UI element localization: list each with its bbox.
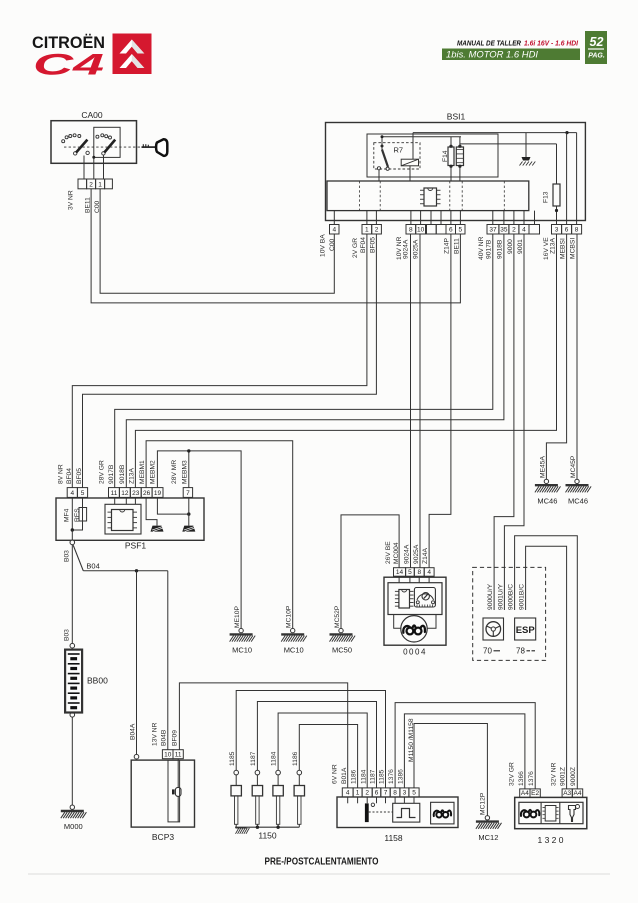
wire 1386 (1158 pin3 to 1320 A4)	[404, 714, 525, 789]
wire C00 (CA00 pin1 to BSI pin4)	[100, 189, 334, 293]
svg-text:1158: 1158	[384, 833, 403, 843]
svg-text:2: 2	[89, 182, 93, 189]
ground terminal M000	[61, 805, 87, 818]
svg-text:9001U/Y: 9001U/Y	[497, 583, 504, 610]
svg-text:9025A: 9025A	[412, 239, 419, 259]
wire BF09/B01A (BCP3 pin11 to 1158 pin4)	[179, 683, 347, 788]
svg-text:BF05: BF05	[369, 237, 376, 253]
svg-text:40V NR: 40V NR	[478, 236, 485, 260]
wire 9025A (BSI pin10 to 0004)	[419, 234, 421, 568]
svg-text:1376: 1376	[388, 769, 395, 784]
pre/post heating control unit 1158	[337, 797, 458, 843]
BSI main compartment box	[327, 181, 529, 211]
svg-text:Z13A: Z13A	[129, 467, 136, 484]
wire 9001B/C to 1320 (9001Z)	[526, 546, 567, 789]
svg-text:35: 35	[500, 227, 508, 234]
PSF1 internal MF4 fuse	[64, 497, 87, 544]
svg-text:9000U/Y: 9000U/Y	[487, 583, 494, 610]
svg-text:9001B/C: 9001B/C	[519, 584, 526, 610]
svg-text:B03: B03	[63, 629, 70, 641]
svg-text:BF05: BF05	[76, 468, 83, 484]
svg-text:1376: 1376	[528, 771, 535, 786]
wire 28V MR MEBM2/MEBM3 (PSF1 pins 19,7 to ground ME10P)	[157, 449, 241, 628]
svg-text:9001Z: 9001Z	[560, 767, 567, 786]
svg-text:3: 3	[555, 227, 559, 234]
svg-text:MEBSI: MEBSI	[559, 238, 566, 259]
svg-text:10: 10	[417, 227, 425, 234]
wire M1150/M1158 (1158 pin5 to MC12)	[414, 724, 487, 816]
faint rule	[28, 873, 610, 875]
svg-text:F13: F13	[542, 191, 549, 203]
svg-text:4: 4	[522, 227, 526, 234]
relay R7 switch	[377, 145, 389, 182]
wire BE11 (CA00 pin2 to BSI pin5)	[91, 189, 460, 303]
svg-text:9017B: 9017B	[108, 464, 115, 484]
BSI internal wire B (top rail to MEBSI/MCBSI)	[413, 131, 577, 134]
wire 1185 (glow plug to 1158)	[236, 691, 385, 788]
header page box: 52 PAG.	[585, 31, 607, 64]
svg-text:MC10: MC10	[284, 646, 304, 655]
BCP3 pin row 10|11	[162, 750, 183, 759]
node B04	[73, 545, 168, 572]
BSI pin connectors row	[330, 225, 340, 235]
ignition switch CA00	[51, 110, 137, 163]
BSI pin stubs	[334, 211, 534, 225]
svg-text:MC10: MC10	[232, 646, 252, 655]
relay R7 dashed box	[374, 143, 420, 169]
dashed actuating line to key	[64, 146, 142, 148]
relay R7 coil	[401, 133, 418, 181]
ground terminal MC10P	[281, 628, 307, 641]
svg-text:70: 70	[483, 647, 492, 656]
svg-text:6V NR: 6V NR	[331, 764, 338, 784]
svg-text:BE11: BE11	[453, 238, 460, 254]
wire 9018B	[126, 234, 504, 488]
svg-text:BSI1: BSI1	[447, 112, 466, 122]
1158 internal relay	[365, 803, 393, 822]
svg-text:MC46: MC46	[537, 496, 557, 505]
svg-text:PSF1: PSF1	[125, 541, 147, 551]
BSI microprocessor	[420, 188, 441, 206]
svg-text:13V NR: 13V NR	[151, 722, 158, 746]
svg-text:9024A: 9024A	[403, 239, 410, 259]
svg-text:5: 5	[412, 790, 416, 797]
svg-text:1: 1	[365, 227, 369, 234]
svg-text:1187: 1187	[370, 769, 377, 784]
fuse F14	[442, 137, 464, 181]
svg-text:1186: 1186	[351, 769, 358, 784]
svg-text:BB00: BB00	[87, 676, 108, 686]
PSF1 engine fusebox	[56, 498, 204, 551]
svg-text:1150: 1150	[258, 831, 277, 841]
instrument cluster 0004	[384, 577, 446, 656]
svg-text:2: 2	[512, 227, 516, 234]
svg-text:M000: M000	[64, 822, 83, 831]
wire 1376 (1158 pin8 to 1320 E2)	[395, 703, 535, 789]
svg-text:4: 4	[70, 490, 74, 497]
wire 9000B/C to 1320 (9000Z)	[515, 536, 578, 789]
wire 9000 (BSI to ESP 9000U/Y)	[494, 234, 514, 610]
svg-text:1184: 1184	[271, 751, 278, 766]
wire B04A (to BCP3)	[129, 571, 138, 759]
svg-text:ME45A: ME45A	[539, 456, 546, 478]
ground terminal ME10P	[230, 628, 256, 641]
svg-text:2: 2	[375, 227, 379, 234]
wire MC004 (0004 pin14 to ground MC50)	[341, 515, 399, 629]
0004 pin row 14|5|8|4	[394, 568, 435, 577]
svg-text:BE11: BE11	[84, 197, 91, 213]
svg-text:9018B: 9018B	[119, 464, 126, 484]
svg-text:BF04: BF04	[360, 237, 367, 253]
svg-text:11: 11	[111, 490, 118, 497]
wire BF05	[83, 234, 377, 488]
MEBSI/MCBSI rails down	[566, 133, 568, 225]
svg-text:A3: A3	[563, 790, 571, 797]
svg-text:10V BA: 10V BA	[320, 234, 327, 257]
svg-text:B04A: B04A	[129, 723, 136, 740]
svg-text:MC52P: MC52P	[334, 605, 341, 628]
svg-text:1366: 1366	[518, 771, 525, 786]
svg-text:9025A: 9025A	[413, 544, 420, 564]
svg-text:Z14P: Z14P	[444, 237, 451, 254]
wire Z13A	[135, 234, 556, 488]
svg-text:9018B: 9018B	[497, 239, 504, 259]
svg-text:26: 26	[143, 490, 151, 497]
svg-text:8: 8	[417, 569, 421, 576]
1320 heater coil	[521, 810, 539, 818]
svg-text:78: 78	[516, 647, 525, 656]
svg-text:MF4: MF4	[64, 508, 71, 522]
battery BB00	[65, 643, 82, 712]
svg-text:1: 1	[98, 182, 102, 189]
svg-text:2V GR: 2V GR	[352, 238, 359, 258]
ESP steering icon	[483, 618, 504, 640]
svg-text:B03: B03	[63, 550, 70, 562]
svg-text:10: 10	[164, 751, 172, 758]
svg-text:1386: 1386	[398, 769, 405, 784]
svg-text:C00: C00	[329, 238, 336, 251]
svg-text:5: 5	[408, 569, 412, 576]
svg-text:6: 6	[565, 227, 569, 234]
svg-text:ESP: ESP	[516, 625, 536, 636]
svg-text:A4: A4	[574, 790, 582, 797]
svg-text:Z13A: Z13A	[549, 237, 556, 254]
connector C00/BE11 pin box 2|1	[78, 179, 112, 189]
wire Z14P/Z14A (BSI pin6 to 0004)	[429, 234, 451, 568]
svg-text:RES: RES	[74, 508, 81, 522]
1320 pin rows	[520, 789, 541, 798]
PSF1 pin row 4|5	[67, 488, 87, 498]
svg-text:9001: 9001	[517, 239, 524, 254]
wire 1184 (glow plug to 1158)	[278, 713, 367, 788]
svg-text:4: 4	[427, 569, 431, 576]
1320 inner box	[519, 802, 583, 823]
0004 inner display box	[388, 583, 442, 615]
wire MCBSI (BSI pin8b to ground MC45P)	[576, 234, 578, 479]
svg-text:MC12: MC12	[478, 833, 498, 842]
svg-text:PAG.: PAG.	[588, 53, 605, 60]
svg-text:37: 37	[489, 227, 497, 234]
svg-text:MEBM2: MEBM2	[150, 460, 157, 484]
svg-text:R7: R7	[394, 146, 404, 155]
PSF1 pin19/pin7 internal ground	[157, 497, 190, 525]
glow plug 1184	[271, 751, 284, 827]
ground terminal MC52P	[330, 628, 356, 641]
svg-text:1184: 1184	[360, 769, 367, 784]
svg-text:MC45P: MC45P	[570, 455, 577, 478]
svg-text:1185: 1185	[379, 769, 386, 784]
svg-text:1186: 1186	[292, 751, 299, 766]
svg-text:9000B/C: 9000B/C	[508, 584, 515, 610]
svg-text:5: 5	[458, 227, 462, 234]
CA00 switch stubs and junction	[84, 156, 104, 180]
0004 chip	[395, 590, 414, 609]
1158 pin stubs	[348, 797, 414, 803]
1158 pin row	[342, 788, 419, 797]
wire MEBM1 (PSF1 pin26 to ground MC10)	[146, 441, 293, 629]
svg-text:9000: 9000	[507, 239, 514, 254]
svg-text:BF04: BF04	[66, 468, 73, 484]
wire 9024A (BSI pin8 to 0004)	[410, 234, 412, 568]
svg-text:MC50: MC50	[332, 646, 352, 655]
svg-text:MC10P: MC10P	[286, 605, 293, 628]
svg-text:B01A: B01A	[341, 767, 348, 784]
svg-text:1.6i 16V - 1.6 HDI: 1.6i 16V - 1.6 HDI	[524, 39, 579, 48]
svg-text:B04: B04	[86, 562, 99, 571]
svg-text:B04B: B04B	[160, 729, 167, 746]
wire 9017B	[115, 234, 493, 488]
glow plug 1187	[250, 751, 263, 827]
svg-text:7: 7	[384, 790, 388, 797]
BSI internal ground	[522, 133, 531, 161]
svg-text:MC004: MC004	[393, 542, 400, 564]
glow plug 1185	[229, 751, 242, 827]
svg-text:52: 52	[590, 35, 604, 49]
svg-text:MEBM3: MEBM3	[182, 460, 189, 484]
ESP module dashed box	[473, 567, 546, 660]
svg-text:ME10P: ME10P	[234, 606, 241, 628]
svg-text:4: 4	[332, 227, 336, 234]
PSF1 pin row 11..19	[109, 488, 164, 498]
0004 pin stubs	[399, 576, 429, 583]
0004 gauge	[414, 588, 435, 608]
svg-text:2: 2	[365, 790, 369, 797]
svg-text:C4: C4	[33, 49, 105, 82]
svg-text:MEBM1: MEBM1	[139, 460, 146, 484]
wire BF04	[72, 234, 367, 488]
svg-text:Z14A: Z14A	[422, 547, 429, 564]
wire battery to M000	[70, 713, 75, 806]
svg-text:5: 5	[81, 490, 85, 497]
svg-text:8: 8	[575, 227, 579, 234]
svg-text:11: 11	[175, 751, 182, 758]
svg-text:23: 23	[132, 490, 140, 497]
key symbol	[142, 139, 168, 156]
injection pump assembly 1320	[515, 797, 587, 845]
PSF1 pin 7	[183, 488, 192, 498]
BSI1 body control unit	[326, 112, 586, 221]
svg-text:12: 12	[121, 490, 129, 497]
wire 1187 (glow plug to 1158)	[257, 702, 376, 788]
dashed separators	[359, 181, 361, 211]
glow plug 1186	[292, 751, 305, 827]
svg-text:0004: 0004	[403, 648, 427, 657]
svg-text:3: 3	[403, 790, 407, 797]
wire 9001 (BSI to ESP 9001U/Y)	[504, 234, 524, 610]
svg-text:9024A: 9024A	[403, 544, 410, 564]
PSF1 pin26 internal ground	[146, 497, 157, 525]
svg-text:MANUAL DE TALLER: MANUAL DE TALLER	[457, 39, 522, 48]
svg-text:1185: 1185	[229, 751, 236, 766]
PSF1 internal microprocessor	[105, 497, 141, 534]
svg-text:3V NR: 3V NR	[67, 190, 74, 210]
fuse box BCP3	[131, 760, 194, 842]
svg-text:6: 6	[375, 790, 379, 797]
ground terminal MC45P	[566, 479, 592, 492]
1158 coil box	[431, 802, 454, 824]
svg-text:9000Z: 9000Z	[570, 767, 577, 786]
svg-text:E2: E2	[531, 790, 539, 797]
1158 timer box	[393, 803, 420, 822]
svg-text:BF09: BF09	[171, 730, 178, 746]
Citroen red square with double chevron	[113, 34, 152, 75]
wire 1186 (glow plug to 1158)	[299, 725, 357, 788]
svg-text:8: 8	[409, 227, 413, 234]
1320 chip	[545, 806, 556, 822]
ground terminal MC12	[476, 816, 502, 829]
svg-text:MC46: MC46	[568, 496, 588, 505]
svg-text:32V NR: 32V NR	[550, 762, 557, 786]
wire MEBSI (BSI pin6b to ground ME45A)	[546, 234, 566, 479]
svg-text:4: 4	[346, 790, 350, 797]
svg-text:19: 19	[154, 490, 162, 497]
svg-text:6: 6	[449, 227, 453, 234]
ground terminal ME45A	[535, 479, 561, 492]
svg-text:BCP3: BCP3	[152, 832, 174, 842]
BSI internal wire A (R7 to F14)	[381, 135, 462, 146]
svg-text:PRE-/POSTCALENTAMIENTO: PRE-/POSTCALENTAMIENTO	[265, 857, 379, 868]
svg-text:1 3 2 0: 1 3 2 0	[538, 835, 564, 845]
header green bar: 1bis. MOTOR 1.6 HDI	[442, 49, 580, 61]
1320 injector icon	[569, 805, 580, 822]
svg-text:8: 8	[393, 790, 397, 797]
svg-text:1: 1	[356, 790, 360, 797]
wire B04B (to BCP3 pin10)	[167, 571, 169, 750]
ESP label box	[515, 618, 536, 640]
svg-text:CA00: CA00	[81, 110, 103, 120]
svg-text:1bis. MOTOR 1.6 HDI: 1bis. MOTOR 1.6 HDI	[446, 50, 538, 61]
BCP3 internal fuse	[168, 759, 181, 822]
svg-text:9017B: 9017B	[486, 239, 493, 259]
BSI internal wire C (F14 to F13)	[460, 144, 557, 184]
svg-text:14: 14	[396, 569, 404, 576]
svg-text:28V GR: 28V GR	[98, 460, 105, 484]
svg-text:1187: 1187	[250, 751, 257, 766]
svg-text:28V MR: 28V MR	[171, 460, 178, 484]
svg-text:26V BE: 26V BE	[385, 541, 392, 564]
ground 1150	[236, 828, 250, 834]
svg-text:8V NR: 8V NR	[57, 464, 64, 484]
svg-text:7: 7	[186, 490, 190, 497]
svg-text:MCBSI: MCBSI	[569, 238, 576, 259]
glow plug common rail 1150	[235, 826, 299, 829]
svg-text:MC12P: MC12P	[479, 792, 486, 815]
0004 glow warning lamp	[394, 615, 436, 643]
fuse F13	[542, 184, 560, 225]
svg-text:32V GR: 32V GR	[508, 762, 515, 786]
svg-text:A4: A4	[521, 790, 529, 797]
wire B03 (PSF1 to battery)	[71, 545, 73, 644]
